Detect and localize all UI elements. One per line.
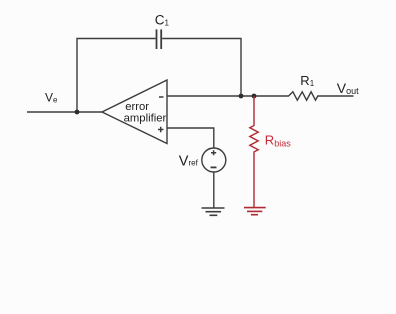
svg-text:amplifier: amplifier <box>124 113 167 125</box>
svg-text:error: error <box>125 101 149 113</box>
